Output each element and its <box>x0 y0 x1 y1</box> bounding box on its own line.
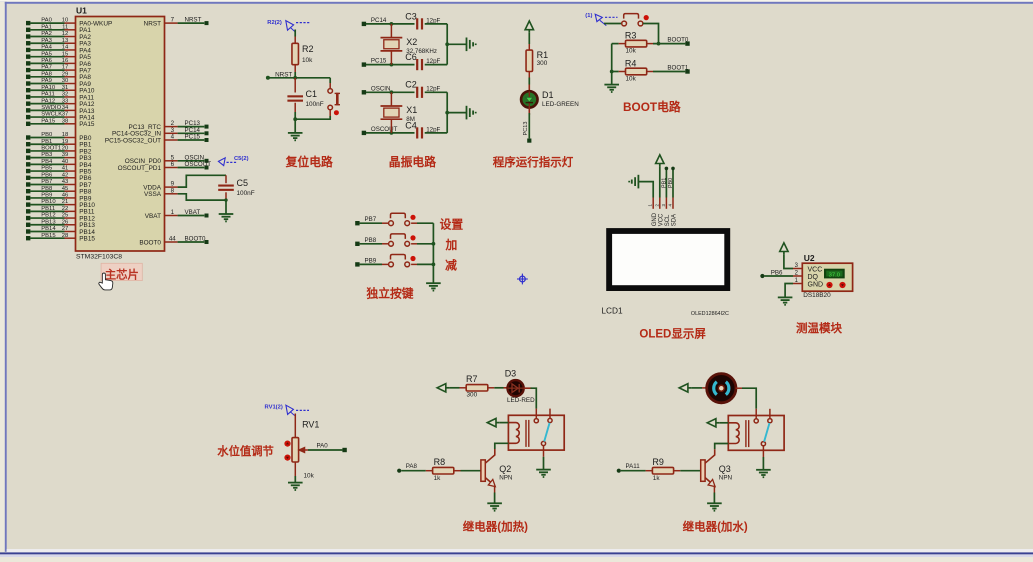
svg-text:OSCIN: OSCIN <box>371 85 391 92</box>
node NRST horizontal wire <box>268 77 330 79</box>
svg-text:DQ: DQ <box>808 274 819 281</box>
pin PB6 (pin 42) of U1 with wire and terminal <box>26 176 30 180</box>
svg-text:D1: D1 <box>542 90 554 100</box>
wire PA11 to R9 <box>621 470 646 472</box>
svg-text:44: 44 <box>169 236 176 243</box>
svg-text:PB3: PB3 <box>41 152 53 158</box>
svg-text:PB5: PB5 <box>41 166 53 172</box>
svg-text:R3: R3 <box>625 31 637 41</box>
svg-text:R2: R2 <box>302 44 314 54</box>
terminal PC13 under D1 <box>527 139 531 143</box>
svg-text:X1: X1 <box>406 105 417 115</box>
capacitor C3 12pF <box>416 18 418 29</box>
svg-text:12: 12 <box>62 31 69 37</box>
resistor R8 1k <box>433 467 454 474</box>
pin SDA (pin 4) of LCD1 <box>672 198 674 209</box>
ground of Q3 emitter <box>707 502 722 504</box>
terminal PA0 <box>342 448 346 452</box>
RV1 wiper arrow <box>299 448 305 453</box>
svg-text:DS18B20: DS18B20 <box>803 292 831 299</box>
wire C3 to right rail <box>425 23 448 25</box>
svg-text:PB13: PB13 <box>41 219 56 225</box>
svg-text:复位电路: 复位电路 <box>285 155 333 169</box>
svg-text:设置: 设置 <box>440 218 464 232</box>
svg-text:6: 6 <box>171 161 175 168</box>
svg-text:PA11: PA11 <box>626 463 641 470</box>
svg-text:26: 26 <box>62 219 69 225</box>
pin PA7 (pin 17) of U1 with wire and terminal <box>26 68 30 72</box>
pin PB7 (pin 43) of U1 with wire and terminal <box>26 182 30 186</box>
wire PC14 row <box>366 23 415 25</box>
svg-text:39: 39 <box>62 152 69 158</box>
svg-text:41: 41 <box>62 166 69 172</box>
svg-text:U1: U1 <box>76 6 87 16</box>
power arrow above U2 <box>780 243 788 252</box>
svg-text:PA5: PA5 <box>41 51 52 57</box>
svg-text:32: 32 <box>62 92 69 98</box>
label 主芯片 main chip <box>101 263 142 280</box>
ground of X2 circuit (rotated) <box>466 38 468 52</box>
svg-text:Q2: Q2 <box>499 464 511 474</box>
svg-text:100nF: 100nF <box>306 101 324 108</box>
power arrow above R1 <box>525 21 533 30</box>
wire left of BOOT button <box>604 23 622 25</box>
ground of BOOT circuit <box>604 84 619 86</box>
pin PA9 (pin 30) of U1 with wire and terminal <box>26 81 30 85</box>
svg-text:PA9: PA9 <box>41 78 52 84</box>
relay RL2 water switch blade <box>764 423 769 442</box>
pin NRST (pin 7) of U1 right side with wire and terminal <box>165 22 178 24</box>
wire C4 to right rail <box>425 132 448 134</box>
crystal X2 32.768KHz <box>381 37 403 39</box>
right rail of X1 <box>446 92 448 133</box>
wire D1 to PC13 terminal <box>528 107 530 115</box>
svg-text:31: 31 <box>62 85 69 91</box>
wire PC15 row <box>366 64 415 66</box>
svg-text:R4: R4 <box>625 59 637 69</box>
svg-text:R1: R1 <box>537 50 549 60</box>
svg-text:38: 38 <box>62 118 69 124</box>
pin PC13_RTC (pin 2) of U1 right side with wire and terminal <box>165 126 178 128</box>
svg-text:U2: U2 <box>804 253 815 263</box>
wire C2 to right rail <box>425 91 448 93</box>
svg-text:4: 4 <box>171 134 175 141</box>
U2 adjust buttons <box>826 282 832 288</box>
svg-text:VSSA: VSSA <box>144 191 162 198</box>
svg-text:晶振电路: 晶振电路 <box>389 155 436 169</box>
svg-text:11: 11 <box>62 24 68 30</box>
ground of X1 circuit (rotated) <box>466 106 468 120</box>
svg-text:R9: R9 <box>652 457 664 467</box>
LED D3 LED-RED <box>507 380 523 396</box>
LED D1 LED-GREEN <box>521 91 537 107</box>
pin PA6 (pin 16) of U1 with wire and terminal <box>26 61 30 65</box>
wire PB8 to key button <box>360 243 382 245</box>
wire NRST node to reset button top <box>329 78 331 83</box>
svg-text:PB4: PB4 <box>41 159 53 165</box>
pin PA11 (pin 32) of U1 with wire and terminal <box>26 95 30 99</box>
wire rail to ground <box>447 43 466 45</box>
wire power to R7 <box>449 387 459 389</box>
svg-text:PC15: PC15 <box>371 58 387 65</box>
svg-text:C5(2): C5(2) <box>234 156 249 162</box>
svg-text:GND: GND <box>808 282 824 289</box>
svg-text:NPN: NPN <box>719 475 733 482</box>
pin PB12 (pin 25) of U1 with wire and terminal <box>26 216 30 220</box>
svg-text:PB0: PB0 <box>41 132 53 138</box>
svg-text:加: 加 <box>445 238 458 252</box>
wire D3 to heater relay <box>524 387 532 389</box>
ground of Q2 emitter <box>487 502 502 504</box>
svg-text:GND: GND <box>652 212 658 226</box>
wire R9 to Q3 base <box>674 470 681 472</box>
resistor R1 300 <box>526 50 533 71</box>
svg-text:PA6: PA6 <box>41 58 52 64</box>
relay RL1 heater switch pole pin <box>541 441 545 445</box>
svg-text:C5: C5 <box>237 178 249 188</box>
resistor R3 10k <box>626 40 647 47</box>
svg-text:PB15: PB15 <box>41 233 56 239</box>
svg-text:STM32F103C8: STM32F103C8 <box>76 254 122 261</box>
power arrow to water relay coil <box>707 419 716 427</box>
relay RL1 heater common contact pin <box>535 409 537 419</box>
svg-text:14: 14 <box>62 45 69 51</box>
chip U1 body STM32F103C8 <box>76 17 165 252</box>
svg-text:PA10: PA10 <box>41 85 56 91</box>
ground of reset circuit <box>288 132 303 134</box>
wire label marker C5(2) <box>218 158 225 166</box>
svg-text:PA2: PA2 <box>41 31 52 37</box>
window frame top edge <box>0 0 1033 2</box>
sheet origin marker <box>520 276 526 282</box>
svg-text:X2: X2 <box>406 37 417 47</box>
wire key 减 to common rail <box>411 263 417 265</box>
wire C6 to right rail <box>425 64 448 66</box>
terminal PA8 <box>397 469 401 473</box>
crystal X1 8M <box>381 105 403 107</box>
display LCD1 OLED12864I2C body <box>606 228 730 291</box>
wire power to R1 <box>528 33 530 44</box>
svg-text:15: 15 <box>62 51 69 57</box>
svg-text:21: 21 <box>62 199 69 205</box>
svg-text:水位值调节: 水位值调节 <box>217 444 273 458</box>
pin PB2 (pin 20) of U1 with wire and terminal <box>26 149 30 153</box>
svg-text:PB0: PB0 <box>668 178 674 188</box>
svg-text:PB15: PB15 <box>79 236 95 243</box>
svg-text:RV1(2): RV1(2) <box>265 405 283 411</box>
pin PB1 (pin 19) of U1 with wire and terminal <box>26 142 30 146</box>
pin PA10 (pin 31) of U1 with wire and terminal <box>26 88 30 92</box>
wire heater relay coil to Q2 collector <box>495 443 509 449</box>
svg-text:10k: 10k <box>302 57 313 64</box>
wire PA8 to R8 <box>401 470 426 472</box>
svg-text:程序运行指示灯: 程序运行指示灯 <box>493 155 574 169</box>
svg-text:PA8: PA8 <box>41 71 52 77</box>
svg-text:22: 22 <box>62 206 69 212</box>
wire Q3 emitter to ground <box>713 486 715 493</box>
push button key 设置 <box>389 221 394 226</box>
relay RL1 heater core <box>525 420 527 447</box>
svg-text:NPN: NPN <box>499 475 513 482</box>
svg-text:10k: 10k <box>626 75 637 82</box>
push button BOOT0 select <box>622 21 627 26</box>
svg-text:VCC: VCC <box>658 213 664 226</box>
terminal OSCOUT <box>362 131 366 135</box>
wire heater relay pole to ground <box>543 457 545 470</box>
relay RL2 water core <box>745 420 747 447</box>
svg-text:Q3: Q3 <box>719 464 731 474</box>
resistor R7 300 <box>466 385 488 391</box>
wire water relay pole to ground <box>762 457 764 470</box>
pin PA5 (pin 15) of U1 with wire and terminal <box>26 54 30 58</box>
window frame bottom edge <box>7 549 1033 552</box>
pin PB13 (pin 26) of U1 with wire and terminal <box>26 223 30 227</box>
svg-text:LCD1: LCD1 <box>601 306 623 316</box>
svg-text:PA11: PA11 <box>41 92 55 98</box>
svg-text:继电器(加水): 继电器(加水) <box>683 519 748 533</box>
module U2 DS18B20 body <box>802 263 852 291</box>
svg-text:8: 8 <box>171 187 175 194</box>
wire R4 to BOOT1 terminal <box>647 71 653 73</box>
svg-text:OLED显示屏: OLED显示屏 <box>639 328 706 341</box>
svg-text:45: 45 <box>62 186 69 192</box>
svg-text:C3: C3 <box>405 11 417 21</box>
common rail of keys <box>432 223 434 283</box>
power arrow to heater relay coil <box>487 418 496 426</box>
svg-text:C1: C1 <box>306 89 318 99</box>
pin PB14 (pin 27) of U1 with wire and terminal <box>26 229 30 233</box>
wire power to water relay coil <box>719 422 728 424</box>
wire to ground of reset <box>294 119 296 133</box>
pin PB3 (pin 39) of U1 with wire and terminal <box>26 155 30 159</box>
wire left rail to R3 <box>612 43 619 45</box>
terminal PB9 <box>355 262 359 266</box>
svg-text:NRST: NRST <box>185 17 202 24</box>
push button key 减 <box>389 262 394 267</box>
svg-text:1k: 1k <box>434 475 442 482</box>
svg-text:OSCOUT_PD1: OSCOUT_PD1 <box>118 165 162 172</box>
svg-text:BOOT0: BOOT0 <box>139 239 161 246</box>
pin PB10 (pin 21) of U1 with wire and terminal <box>26 202 30 206</box>
pin VCC (pin 3) of U2 <box>793 268 802 270</box>
wire reset button bottom to ground node <box>329 110 331 116</box>
svg-text:测温模块: 测温模块 <box>796 321 842 335</box>
RV1 adjust buttons <box>284 441 290 447</box>
power arrow above OLED VCC <box>656 155 664 164</box>
svg-text:300: 300 <box>537 60 548 67</box>
svg-text:主芯片: 主芯片 <box>105 267 139 281</box>
svg-text:PB10: PB10 <box>41 199 56 205</box>
ground of RV1 <box>288 482 303 484</box>
wire rail to ground <box>447 112 466 114</box>
svg-text:SWDIO: SWDIO <box>41 105 61 111</box>
mouse hand cursor <box>99 273 113 290</box>
svg-text:PB7: PB7 <box>41 179 52 185</box>
pin PB15 (pin 28) of U1 with wire and terminal <box>26 236 30 240</box>
svg-text:20: 20 <box>62 146 69 152</box>
svg-text:10k: 10k <box>626 48 637 55</box>
U2 temperature readout 37.0 <box>824 269 845 279</box>
terminal BOOT0 <box>685 41 689 45</box>
pin BOOT0 (pin 44) of U1 right side with wire and terminal <box>165 241 178 243</box>
pin PB11 (pin 22) of U1 with wire and terminal <box>26 209 30 213</box>
svg-text:32.768KHz: 32.768KHz <box>406 48 437 55</box>
svg-text:PB8: PB8 <box>41 186 53 192</box>
terminal PB8 <box>355 242 359 246</box>
pin PA3 (pin 13) of U1 with wire and terminal <box>26 41 30 45</box>
svg-text:LED-RED: LED-RED <box>507 397 535 404</box>
svg-text:SCL: SCL <box>665 214 671 226</box>
svg-text:18: 18 <box>62 132 69 138</box>
capacitor C1 100nF <box>287 95 303 97</box>
relay RL1 heater body <box>508 415 564 450</box>
svg-text:NRST: NRST <box>275 71 292 78</box>
wire VSSA to C5 bottom <box>178 194 226 200</box>
wire U2 GND to ground <box>785 284 793 298</box>
svg-text:PA15: PA15 <box>79 121 95 128</box>
relay RL1 heater NO contact pin <box>549 409 551 419</box>
svg-text:BOOT电路: BOOT电路 <box>623 100 681 114</box>
resistor R4 10k <box>626 68 647 75</box>
svg-text:8M: 8M <box>406 116 415 123</box>
terminal PA11 <box>617 469 621 473</box>
pin OSCOUT_PD1 (pin 6) of U1 right side with wire and terminal <box>165 167 178 169</box>
wire VDDA to C5 top <box>178 175 226 187</box>
svg-text:40: 40 <box>62 159 69 165</box>
wire PB7 to key button <box>360 222 382 224</box>
terminal BOOT1 <box>685 69 689 73</box>
svg-text:10: 10 <box>62 18 69 24</box>
wire OLED VCC pin to power <box>659 167 661 198</box>
pin PA14 (pin 37) of U1 with wire and terminal <box>26 115 30 119</box>
svg-text:PB1: PB1 <box>41 139 52 145</box>
wire crystal X1 bottom pin <box>390 119 392 133</box>
wire motor to water relay <box>736 387 742 389</box>
window frame left edge <box>0 2 5 553</box>
wire R3 to BOOT0 terminal <box>647 43 653 45</box>
wire OSCIN row <box>366 91 415 93</box>
wire power to heater relay coil <box>499 422 508 424</box>
svg-text:PA7: PA7 <box>41 65 52 71</box>
svg-text:PC14: PC14 <box>371 17 387 24</box>
wire OLED SCL pin to PB1 <box>665 170 667 198</box>
wire Q2 emitter to ground <box>494 486 496 493</box>
svg-text:(1): (1) <box>585 13 592 19</box>
relay RL2 water body <box>728 416 784 451</box>
ground of water relay contact <box>756 469 771 471</box>
pin VCC (pin 2) of LCD1 <box>659 198 661 209</box>
wire R2 bottom to NRST node <box>294 65 296 72</box>
svg-text:R7: R7 <box>466 374 478 384</box>
svg-text:继电器(加热): 继电器(加热) <box>463 519 528 533</box>
capacitor C5 100nF <box>225 175 227 183</box>
pin PA15 (pin 38) of U1 with wire and terminal <box>26 122 30 126</box>
wire crystal X1 top pin <box>390 92 392 106</box>
svg-text:PB12: PB12 <box>41 213 55 219</box>
svg-text:13: 13 <box>62 38 69 44</box>
pin GND (pin 1) of U2 <box>793 283 802 285</box>
svg-text:PA4: PA4 <box>41 45 52 51</box>
svg-text:100nF: 100nF <box>237 190 255 197</box>
wire water relay coil to Q3 collector <box>715 444 729 450</box>
svg-text:42: 42 <box>62 172 69 178</box>
svg-text:PA12: PA12 <box>41 98 55 104</box>
svg-text:7: 7 <box>171 17 175 24</box>
svg-text:29: 29 <box>62 71 69 77</box>
svg-text:27: 27 <box>62 226 69 232</box>
svg-text:PA3: PA3 <box>41 38 52 44</box>
pin PA1 (pin 11) of U1 with wire and terminal <box>26 28 30 32</box>
svg-text:1: 1 <box>171 209 175 216</box>
push button reset (vertical) <box>328 89 333 94</box>
wire key 加 to common rail <box>411 243 417 245</box>
ground of keys <box>426 282 441 284</box>
svg-text:17: 17 <box>62 65 69 71</box>
capacitor C4 12pF <box>416 127 418 138</box>
relay RL1 heater switch blade <box>544 423 549 442</box>
wire C5 bottom to ground <box>225 200 227 214</box>
resistor R2 10k <box>292 43 299 64</box>
pin PB4 (pin 40) of U1 with wire and terminal <box>26 162 30 166</box>
pin PA4 (pin 14) of U1 with wire and terminal <box>26 48 30 52</box>
svg-text:PA0: PA0 <box>41 18 52 24</box>
wire top of R2 <box>294 30 296 37</box>
svg-text:C2: C2 <box>405 80 417 90</box>
svg-text:10k: 10k <box>304 473 315 480</box>
svg-text:37.0: 37.0 <box>829 272 840 278</box>
terminal OSCIN <box>362 90 366 94</box>
pin VBAT (pin 1) of U1 right side with wire and terminal <box>165 215 178 217</box>
svg-text:PA1: PA1 <box>41 24 52 30</box>
pin PB5 (pin 41) of U1 with wire and terminal <box>26 169 30 173</box>
wire key 设置 to common rail <box>411 222 417 224</box>
pin VDDA (pin 9) of U1 <box>165 186 178 188</box>
pin GND (pin 1) of LCD1 <box>652 198 654 209</box>
ground of U2 <box>778 296 793 298</box>
svg-text:LED-GREEN: LED-GREEN <box>542 101 579 108</box>
ground below C5 <box>219 213 234 215</box>
power arrow feeding motor <box>679 384 688 392</box>
svg-text:独立按键: 独立按键 <box>365 286 413 300</box>
pin PC14-OSC32_IN (pin 3) of U1 right side with wire and terminal <box>165 132 178 134</box>
wire PB9 to key button <box>360 263 382 265</box>
wire OLED SDA pin to PB0 <box>672 170 674 198</box>
svg-text:OSCOUT: OSCOUT <box>185 161 212 168</box>
svg-text:33: 33 <box>62 98 69 104</box>
relay RL2 water common contact pin <box>755 409 757 419</box>
svg-text:PB8: PB8 <box>365 237 377 244</box>
terminal PB6 <box>760 274 764 278</box>
svg-text:R2(2): R2(2) <box>267 20 282 26</box>
svg-text:减: 减 <box>445 259 457 273</box>
pin OSCIN_PD0 (pin 5) of U1 right side with wire and terminal <box>165 160 178 162</box>
svg-text:300: 300 <box>467 391 478 398</box>
svg-text:34: 34 <box>62 105 69 111</box>
svg-text:PA15: PA15 <box>41 118 56 124</box>
svg-text:VCC: VCC <box>808 266 823 273</box>
wire R8 to Q2 base <box>454 470 461 472</box>
svg-text:PB9: PB9 <box>41 193 52 199</box>
wire crystal X2 bottom pin <box>390 51 392 65</box>
relay RL2 water NO contact pin <box>769 409 771 419</box>
wire NRST node down to C1 <box>294 78 296 93</box>
pin PA12 (pin 33) of U1 with wire and terminal <box>26 101 30 105</box>
svg-text:PB6: PB6 <box>41 172 53 178</box>
push button key 加 <box>389 241 394 246</box>
svg-text:R8: R8 <box>434 457 446 467</box>
left rail BOOT divider <box>611 44 613 85</box>
wire C1 bottom to ground node <box>294 103 296 112</box>
